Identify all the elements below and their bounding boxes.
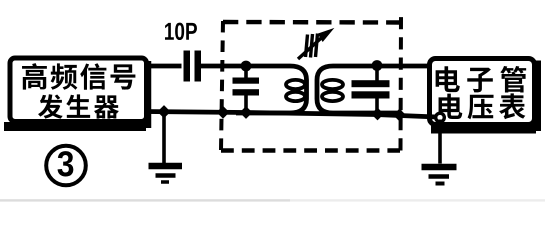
block U1: HF signal generator box 高频信号发生器: [4, 58, 148, 128]
wire: C1 to left tank top + left tank right side (loop): [199, 66, 307, 113]
text: 发生器 (line 2 of generator box): [38, 94, 119, 118]
ground GND1 (generator side): [149, 112, 183, 182]
variable coupling arrow (adjustable mutual inductance): [298, 34, 324, 60]
scan artifact: faint bottom streak: [0, 199, 290, 201]
junction: C2 bottom node: [240, 106, 253, 119]
junction: ground branch node: [157, 105, 170, 118]
junction: C3 top node: [372, 60, 383, 71]
ground GND2 (voltmeter side): [422, 120, 457, 184]
text: 电压表 (line 2 of voltmeter box): [439, 93, 526, 119]
block U2: vacuum tube voltmeter box 电子管电压表: [430, 59, 538, 132]
text: 电子管 (line 1 of voltmeter box): [436, 66, 527, 93]
capacitor C1 10P (series coupling cap): [184, 51, 202, 82]
capacitor C3 (right tank capacitor): [352, 64, 390, 115]
junction: C2 top node: [241, 61, 252, 72]
label: 10P value: [165, 23, 197, 40]
junction: shield to ground rail (right): [393, 109, 406, 122]
junction: shield to ground rail (left): [217, 106, 230, 119]
inductor L2 (right tank coil, 2 turns): [322, 80, 343, 101]
junction: voltmeter ground terminal (ring): [436, 113, 445, 122]
inductor L1 (left tank coil, 2 turns): [286, 80, 305, 101]
junction: C3 bottom node: [371, 108, 384, 121]
shield box (dashed screening enclosure): [221, 17, 401, 151]
wire: bottom ground rail (generator to voltmeter): [144, 112, 437, 118]
wire: right tank left side (loop) + top wire to voltmeter: [317, 66, 430, 113]
wire: generator top output to C1: [144, 64, 182, 69]
text: 高频信号 (line 1 of generator box): [22, 63, 135, 90]
capacitor C2 (left tank capacitor): [233, 64, 260, 114]
figure number ③: [46, 146, 86, 186]
